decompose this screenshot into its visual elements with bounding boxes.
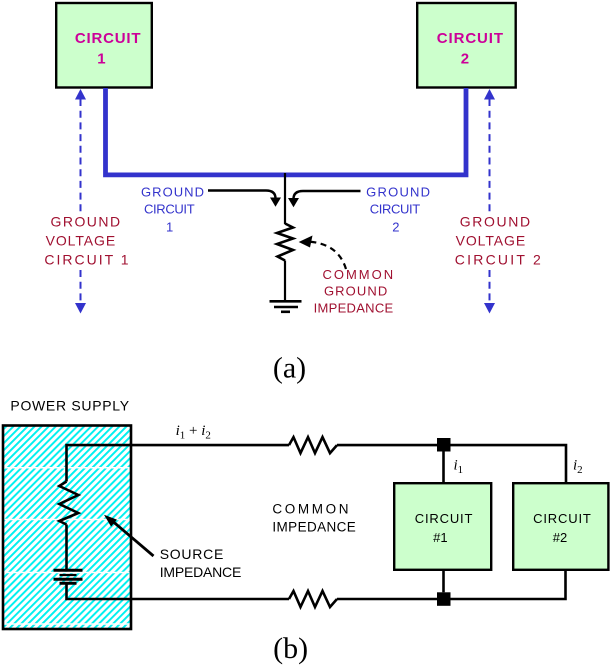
pointer ground circuit 1 (208, 191, 281, 207)
svg-text:#1: #1 (433, 530, 447, 545)
svg-text:VOLTAGE: VOLTAGE (46, 233, 116, 249)
svg-text:#2: #2 (553, 530, 567, 545)
resistor common impedance bottom (289, 591, 337, 607)
wire circuit 1 bottom branch (442, 571, 445, 592)
junction node top (437, 438, 451, 452)
junction node bottom (437, 592, 451, 606)
svg-text:GROUND: GROUND (51, 214, 121, 230)
svg-text:CIRCUIT: CIRCUIT (75, 30, 141, 47)
svg-text:CIRCUIT: CIRCUIT (533, 511, 591, 526)
circuit block #1 (394, 483, 491, 570)
dashed arrow ground voltage circuit 2 (484, 89, 495, 314)
svg-text:CIRCUIT: CIRCUIT (144, 202, 195, 217)
wire top rail right (337, 445, 566, 482)
svg-text:GROUND: GROUND (460, 214, 530, 230)
circuit block #2 (513, 483, 608, 570)
svg-text:CIRCUIT 1: CIRCUIT 1 (44, 251, 128, 267)
circuit block 2 (417, 3, 516, 88)
svg-text:IMPEDANCE: IMPEDANCE (314, 301, 394, 316)
svg-text:IMPEDANCE: IMPEDANCE (272, 520, 355, 535)
svg-text:(a): (a) (273, 352, 306, 385)
resistor source impedance (59, 482, 78, 525)
svg-text:VOLTAGE: VOLTAGE (456, 233, 526, 249)
wire bottom rail right (337, 571, 566, 599)
pointer ground circuit 2 (288, 191, 361, 207)
pointer source impedance (104, 515, 154, 556)
wire top rail left (67, 445, 290, 481)
svg-text:2: 2 (461, 51, 469, 68)
svg-text:CIRCUIT: CIRCUIT (415, 511, 473, 526)
label source impedance (160, 546, 242, 580)
circuit block 1 (56, 3, 152, 88)
svg-text:GROUND: GROUND (324, 284, 387, 299)
svg-text:IMPEDANCE: IMPEDANCE (160, 564, 242, 580)
label ground circuit 1 (141, 184, 204, 234)
svg-text:COMMON: COMMON (272, 502, 348, 517)
wire resistor to battery (65, 525, 68, 570)
svg-text:i1 + i2: i1 + i2 (176, 423, 211, 442)
dashed arrow ground voltage circuit 1 (75, 89, 86, 314)
label ground voltage circuit 2 (455, 214, 541, 268)
svg-text:POWER SUPPLY: POWER SUPPLY (10, 398, 129, 414)
wire bottom rail left (67, 585, 290, 600)
svg-text:i2: i2 (573, 457, 583, 476)
wire node to resistor (284, 173, 286, 224)
svg-text:2: 2 (392, 219, 399, 234)
svg-text:SOURCE: SOURCE (160, 546, 224, 562)
svg-text:CIRCUIT 2: CIRCUIT 2 (455, 251, 541, 267)
resistor common impedance top (289, 437, 337, 453)
dashed pointer common ground impedance (299, 236, 346, 270)
label ground voltage circuit 1 (44, 214, 128, 268)
svg-text:1: 1 (97, 51, 105, 68)
label ground circuit 2 (366, 184, 430, 234)
svg-text:i1: i1 (454, 457, 464, 476)
svg-text:GROUND: GROUND (366, 184, 430, 199)
svg-text:CIRCUIT: CIRCUIT (437, 30, 503, 47)
svg-text:GROUND: GROUND (141, 184, 204, 199)
label common impedance (272, 502, 355, 535)
ground (270, 301, 302, 312)
wire i1 branch (442, 451, 445, 482)
wire resistor to ground (284, 261, 286, 302)
svg-text:COMMON: COMMON (322, 267, 393, 282)
wire blue ground bus (106, 88, 467, 175)
svg-text:(b): (b) (273, 632, 308, 665)
svg-text:1: 1 (166, 219, 173, 234)
resistor common ground impedance (277, 224, 293, 261)
battery (54, 570, 83, 583)
svg-text:CIRCUIT: CIRCUIT (370, 202, 420, 217)
power supply box (3, 426, 131, 630)
label common ground impedance (314, 267, 394, 316)
